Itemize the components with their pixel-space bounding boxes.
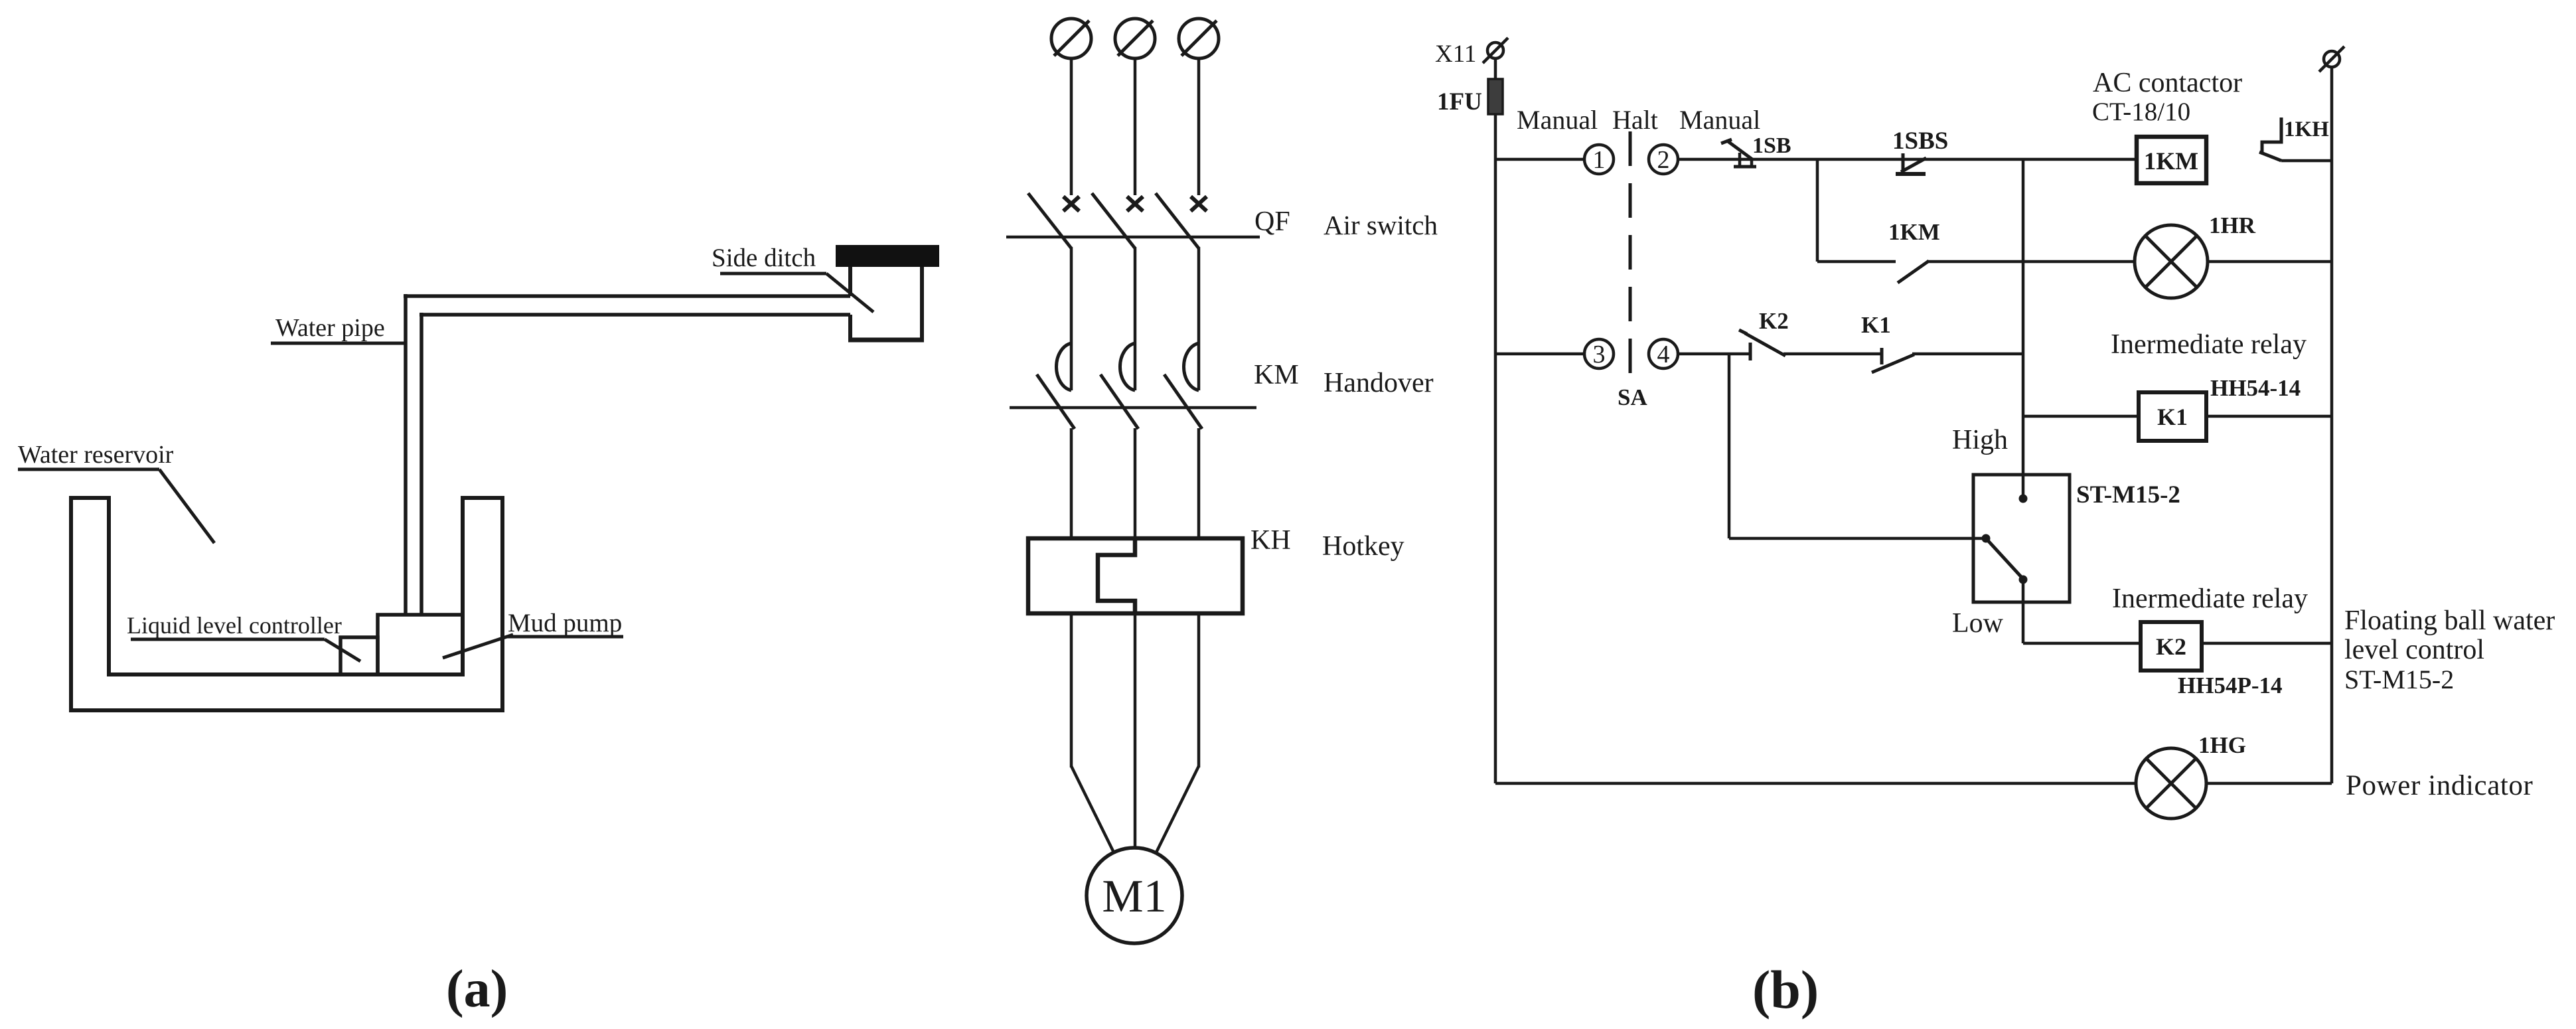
svg-text:K1: K1 <box>2157 404 2188 430</box>
svg-text:CT-18/10: CT-18/10 <box>2092 98 2190 126</box>
wire K1 coil to right rail <box>2206 415 2332 418</box>
svg-text:Power indicator: Power indicator <box>2346 770 2533 801</box>
wire lamp 1HR to right rail <box>2208 260 2332 264</box>
contact 1KM blade <box>1898 261 1929 283</box>
svg-text:Floating ball water: Floating ball water <box>2344 605 2555 636</box>
mud pump box <box>378 615 463 674</box>
K2 blade hook <box>1739 330 1747 334</box>
switch top contact dot <box>2019 495 2028 503</box>
svg-text:M1: M1 <box>1102 871 1166 922</box>
svg-text:Manual: Manual <box>1517 105 1598 135</box>
lamp 1HR cross <box>2145 236 2197 287</box>
wire rung1 rail to node 1 <box>1495 158 1584 161</box>
contact K1 blade <box>1872 355 1914 372</box>
svg-text:Low: Low <box>1952 608 2004 639</box>
svg-text:Air switch: Air switch <box>1324 210 1438 240</box>
wire K1 coil rung <box>2023 415 2139 418</box>
terminal X11 circle <box>1487 42 1503 58</box>
motor M1 circle <box>1087 848 1182 943</box>
lamp 1HG circle <box>2136 748 2206 819</box>
wire node4 to K2 <box>1678 353 1750 356</box>
QF bar <box>1006 236 1260 239</box>
supply terminal circle L3 <box>1179 19 1219 58</box>
switch lever <box>1986 538 2023 579</box>
1SB bracket left <box>1738 153 1742 167</box>
svg-text:1KH: 1KH <box>2284 118 2329 141</box>
right terminal slash <box>2319 46 2344 72</box>
svg-text:(a): (a) <box>446 960 508 1018</box>
svg-text:AC contactor: AC contactor <box>2093 68 2242 98</box>
terminal X11 slash <box>1483 38 1508 63</box>
svg-text:1KM: 1KM <box>1888 219 1940 245</box>
1SB bracket bottom <box>1734 165 1756 169</box>
svg-text:X11: X11 <box>1435 40 1476 68</box>
terminal X mark L2 <box>1127 197 1143 211</box>
KM arc pole 3 <box>1183 343 1199 390</box>
liquid level controller box <box>341 637 378 674</box>
svg-text:K2: K2 <box>1759 308 1789 334</box>
node 4 circle <box>1649 339 1678 368</box>
selector SA dashed line <box>1629 131 1632 381</box>
water pipe vertical right line <box>419 313 423 615</box>
supply terminal circle L1 <box>1051 19 1091 58</box>
leader diagonal Liquid level controller <box>325 639 360 661</box>
wire QF to KM pole 3 <box>1197 247 1201 390</box>
svg-text:Inermediate relay: Inermediate relay <box>2112 584 2308 614</box>
wire KM to KH pole 3 <box>1197 428 1201 538</box>
1SBS blade <box>1901 158 1926 172</box>
node 2 circle <box>1649 145 1678 174</box>
svg-text:Hotkey: Hotkey <box>1322 531 1404 562</box>
wire low contact down <box>2022 580 2025 643</box>
svg-text:ST-M15-2: ST-M15-2 <box>2076 481 2180 509</box>
pushbutton 1SB blade <box>1727 141 1752 159</box>
contact K2 blade <box>1745 333 1785 356</box>
KM blade pole 1 <box>1037 374 1075 429</box>
wire rung2 rail to node 3 <box>1495 353 1584 356</box>
svg-text:1: 1 <box>1593 146 1606 174</box>
water pipe horizontal outer line <box>404 294 850 298</box>
wire angled right <box>1156 766 1199 854</box>
QF blade pole 1 <box>1028 193 1071 248</box>
node 1 circle <box>1584 145 1614 174</box>
terminal X mark L1 <box>1063 197 1079 211</box>
coil 1KM box <box>2137 137 2206 183</box>
svg-text:Manual: Manual <box>1679 105 1760 135</box>
leader diagonal Side ditch <box>826 274 873 312</box>
svg-text:Handover: Handover <box>1324 368 1434 398</box>
wire branch down from rung1 <box>1816 159 1819 262</box>
svg-text:1SBS: 1SBS <box>1892 127 1948 155</box>
side ditch left wall upper <box>848 267 852 296</box>
svg-text:1HR: 1HR <box>2209 212 2256 238</box>
leader underline Side ditch <box>720 272 826 276</box>
contact 1KH zigzag <box>2262 118 2281 152</box>
lamp 1HG cross <box>2147 759 2196 808</box>
wire K2 to K1 <box>1783 353 1882 356</box>
wire KH to motor left <box>1070 613 1073 767</box>
wire KH to motor right <box>1197 613 1201 767</box>
left rail <box>1494 58 1497 783</box>
wire junction down from rung2 <box>1728 354 1731 538</box>
svg-text:Mud pump: Mud pump <box>508 609 622 637</box>
svg-text:2: 2 <box>1657 146 1670 174</box>
svg-text:4: 4 <box>1657 341 1670 368</box>
float switch ST-M15-2 box <box>1973 475 2070 602</box>
side ditch bottom <box>848 338 924 343</box>
leader underline Mud pump <box>506 635 623 639</box>
leader underline Water reservoir <box>18 468 159 471</box>
svg-text:1FU: 1FU <box>1437 88 1482 116</box>
1SB blade hook <box>1721 139 1732 143</box>
coil K1 box <box>2139 392 2206 441</box>
wire QF to KM pole 1 <box>1070 247 1073 390</box>
wire 1KM branch to lamp 1HR <box>1927 260 2136 264</box>
svg-text:Halt: Halt <box>1612 105 1658 135</box>
wire to K2 coil <box>2023 642 2141 645</box>
svg-text:ST-M15-2: ST-M15-2 <box>2344 665 2454 694</box>
leader diagonal Water reservoir <box>159 469 214 543</box>
wire KM to KH pole 2 <box>1134 428 1137 538</box>
right terminal circle <box>2324 51 2340 67</box>
side ditch cover (black bar) <box>836 245 939 267</box>
svg-text:(b): (b) <box>1752 959 1819 1020</box>
svg-text:HH54P-14: HH54P-14 <box>2178 673 2282 698</box>
wire supply drop L2 <box>1134 58 1137 195</box>
KM arc pole 1 <box>1056 343 1071 390</box>
svg-text:SA: SA <box>1618 384 1647 410</box>
leader diagonal Mud pump <box>443 635 513 658</box>
node 3 circle <box>1584 339 1614 368</box>
water reservoir outline <box>71 498 502 710</box>
1KH blade <box>2259 152 2281 161</box>
wire 1KM branch left <box>1817 260 1896 264</box>
leader underline Water pipe <box>271 342 406 345</box>
svg-text:KH: KH <box>1250 525 1291 556</box>
pushbutton 1SBS stem <box>1902 153 1905 175</box>
water pipe vertical left line <box>404 294 408 615</box>
supply terminal slash L2 <box>1118 21 1153 56</box>
leader underline Liquid level controller <box>131 638 325 641</box>
svg-text:QF: QF <box>1254 206 1290 237</box>
svg-text:1KM: 1KM <box>2144 148 2198 175</box>
svg-text:level control: level control <box>2344 635 2484 665</box>
right rail <box>2330 66 2334 783</box>
wire lamp 1HG to right rail <box>2206 782 2332 785</box>
1SBS bottom bar <box>1896 172 1926 176</box>
svg-text:Inermediate relay: Inermediate relay <box>2111 329 2307 360</box>
wire KM to KH pole 1 <box>1070 428 1073 538</box>
wire K2 coil to right rail <box>2202 642 2332 645</box>
KM blade pole 2 <box>1100 374 1138 429</box>
svg-text:Side ditch: Side ditch <box>712 244 816 272</box>
wire 1KH to right rail <box>2281 159 2332 163</box>
svg-text:Water reservoir: Water reservoir <box>18 441 174 469</box>
coil K2 box <box>2141 622 2202 671</box>
KM bar <box>1010 406 1256 410</box>
wire node2 to 1KM coil <box>1678 158 2137 161</box>
wire main branch vertical <box>2022 159 2025 498</box>
svg-text:1SB: 1SB <box>1752 133 1791 158</box>
contact K2 tick <box>1749 343 1752 360</box>
KH heater notch <box>1098 538 1135 613</box>
QF blade pole 2 <box>1092 193 1135 248</box>
svg-text:1HG: 1HG <box>2198 732 2246 758</box>
side ditch left wall lower <box>848 315 852 342</box>
switch low contact dot <box>2019 576 2028 584</box>
supply terminal circle L2 <box>1115 19 1155 58</box>
water pipe horizontal inner line <box>419 313 850 317</box>
wire K1 to branch vertical <box>1912 353 2023 356</box>
fuse 1FU <box>1488 79 1503 114</box>
wire bottom rung <box>1495 782 2136 785</box>
thermal relay KH box <box>1028 538 1243 613</box>
supply terminal slash L3 <box>1181 21 1217 56</box>
switch pivot dot <box>1982 534 1991 543</box>
wire KH to motor mid <box>1134 613 1137 848</box>
wire supply drop L1 <box>1070 58 1073 195</box>
KM arc pole 2 <box>1120 343 1135 390</box>
svg-text:3: 3 <box>1593 341 1606 368</box>
supply terminal slash L1 <box>1054 21 1089 56</box>
terminal X mark L3 <box>1191 197 1207 211</box>
wire supply drop L3 <box>1197 58 1201 195</box>
wire QF to KM pole 2 <box>1134 247 1137 390</box>
QF blade pole 3 <box>1156 193 1199 248</box>
svg-text:HH54-14: HH54-14 <box>2210 375 2301 401</box>
svg-text:High: High <box>1952 425 2008 455</box>
svg-text:K1: K1 <box>1861 312 1891 338</box>
1SB bracket right <box>1750 160 1754 167</box>
lamp 1HR circle <box>2135 225 2208 298</box>
side ditch right wall <box>920 267 924 342</box>
KM blade pole 3 <box>1164 374 1202 429</box>
svg-text:K2: K2 <box>2156 633 2186 660</box>
contact K1 tick <box>1880 348 1884 364</box>
wire feed into switch <box>1729 537 1983 540</box>
svg-text:KM: KM <box>1254 360 1299 390</box>
svg-text:Water pipe: Water pipe <box>275 314 385 342</box>
wire angled left <box>1071 766 1114 854</box>
svg-text:Liquid level controller: Liquid level controller <box>127 612 342 639</box>
